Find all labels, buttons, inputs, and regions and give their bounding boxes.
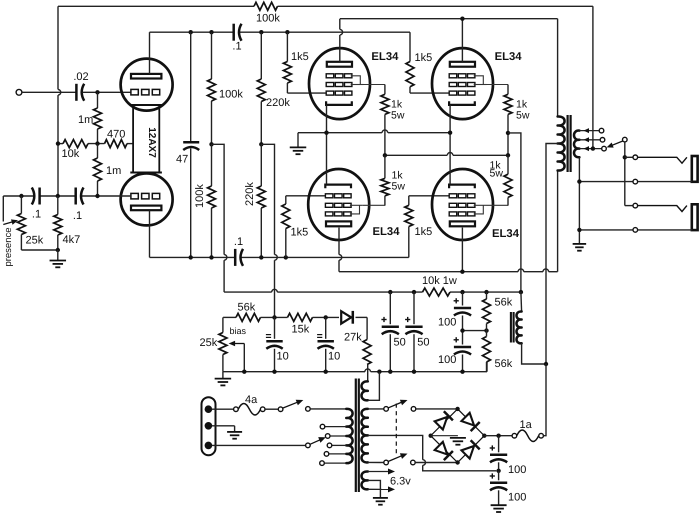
mains pin earth (205, 422, 213, 430)
node lower-right plate junction (460, 270, 464, 274)
wire left feedback drop (57, 6, 59, 89)
wire 6.3v tap lower (368, 488, 390, 490)
node screen rail right end (519, 290, 523, 294)
bias pot wiper (234, 343, 244, 345)
node 56k chain top (484, 290, 488, 294)
node bias winding return (377, 370, 381, 374)
capacitor 10uF bias b (325, 317, 327, 338)
node sleeve 1 (577, 179, 581, 183)
wire HT bottom tap (368, 461, 384, 463)
wire selector to jacks (624, 142, 626, 206)
choke core (510, 312, 512, 343)
node 1k5 top-left (285, 30, 289, 34)
wire ground rail (223, 371, 365, 373)
ground bridge centre (431, 435, 458, 437)
node 50uF b top (412, 290, 416, 294)
capacitor .1 presence left (38, 188, 41, 205)
node 100k top (209, 30, 213, 34)
svg-text:220k: 220k (244, 182, 256, 206)
svg-text:5w: 5w (391, 110, 405, 122)
tube EL34 lower-right (432, 169, 493, 240)
node choke B+ junction (544, 362, 548, 366)
transformer PT 6.3v winding (362, 471, 368, 489)
svg-text:.02: .02 (73, 71, 88, 83)
svg-text:4k7: 4k7 (63, 234, 81, 246)
svg-text:1k5: 1k5 (291, 51, 309, 63)
hop plate bus over screen supply (518, 269, 524, 272)
capacitor .02 input coupling (75, 84, 78, 101)
wire PT tap 220 (332, 444, 347, 446)
node 50b ground (412, 370, 416, 374)
wire EL34 upper-right plate (461, 19, 463, 62)
node 220k top (259, 30, 263, 34)
hop screen rail over bias feed (272, 289, 278, 292)
wire upper plate row (150, 31, 234, 33)
terminal jack1 tip (633, 155, 638, 160)
svg-text:1a: 1a (520, 419, 533, 431)
svg-text:6.3v: 6.3v (390, 476, 411, 488)
svg-text:50: 50 (417, 337, 429, 349)
wire PT tap 110 (324, 462, 346, 464)
node bridge top (455, 407, 459, 411)
node bias cap a ground (272, 370, 276, 374)
node bias feed junction (272, 315, 276, 319)
wire earth pin (212, 425, 235, 427)
node 50a ground (388, 370, 392, 374)
terminal jack1 sleeve (633, 179, 638, 184)
node reservoir branch (496, 434, 500, 438)
resistor 1k 5w screen upper-left (384, 85, 386, 95)
diode bias rectifier (341, 311, 351, 323)
wire input to coupling cap (22, 91, 77, 93)
transformer PT primary winding (346, 409, 352, 463)
node input grid junction (95, 90, 99, 94)
diode bridge left-bottom (435, 442, 448, 455)
jack 2 tip spring (638, 206, 687, 212)
svg-text:100k: 100k (219, 89, 243, 101)
svg-text:27k: 27k (344, 332, 362, 344)
node 4k7 top (56, 194, 60, 198)
svg-text:100k: 100k (194, 184, 206, 208)
node cathode right (448, 131, 452, 135)
svg-text:56k: 56k (495, 358, 513, 370)
wire PT tap 240 (325, 426, 347, 428)
svg-text:100: 100 (438, 317, 456, 329)
node screen bus left (383, 153, 387, 157)
fuse 1a (512, 433, 517, 438)
node grid side (95, 194, 99, 198)
node feedback tap (591, 146, 595, 150)
wire jack2 sleeve line (582, 229, 633, 231)
svg-text:presence: presence (3, 227, 14, 266)
tube 12AX7 lower plate (131, 206, 161, 211)
resistor 1k5 grid EL34 upper-left (286, 32, 288, 61)
wire psu mid link (463, 330, 487, 332)
capacitor 100uF psu upper (462, 292, 464, 305)
bridge frame (431, 409, 485, 463)
wire PT tap 120 (329, 453, 347, 455)
resistor 1k 5w screen upper-right (507, 85, 509, 95)
resistor 1m lower grid leak (97, 144, 99, 158)
capacitor 100uF reservoir lower (498, 471, 500, 481)
svg-text:100: 100 (508, 464, 526, 476)
wire EL34 lower-right plate drop (461, 228, 463, 272)
node 1k5 bottom-left (284, 255, 288, 259)
mains pin live (205, 405, 213, 413)
resistor 56k bias (236, 313, 260, 321)
wire lower plate row (150, 256, 236, 258)
wire OT primary top lead (557, 19, 559, 117)
svg-text:EL34: EL34 (495, 51, 523, 63)
node 47pF top (189, 30, 193, 34)
node sleeve 2 (577, 228, 581, 232)
ground presence network (57, 250, 59, 260)
wire screen stub upper-left (364, 84, 385, 86)
ground OT secondary (573, 243, 587, 245)
hop screen bus over cathode wire (447, 153, 453, 156)
resistor 27k bias (366, 317, 368, 339)
svg-text:4a: 4a (245, 394, 258, 406)
wire bias winding return (368, 372, 380, 401)
resistor 1k5 grid EL34 upper-right (409, 32, 411, 61)
node 47pF bottom (189, 255, 193, 259)
wire 6.3v centre tap (368, 480, 381, 497)
resistor 470 cathode (105, 140, 128, 148)
jog CT over switch wire (423, 460, 426, 466)
fuse 4a (234, 407, 239, 412)
hop ground rail over bias winding lead (365, 369, 371, 372)
hop feedback line over grid wire (58, 90, 61, 96)
mains switch (278, 407, 283, 412)
resistor 1m upper grid leak (97, 92, 99, 108)
wire screen stub lower-left (363, 204, 385, 206)
wire switch to primary (310, 408, 346, 410)
svg-text:5w: 5w (516, 110, 530, 122)
transformer OT secondary winding (574, 131, 579, 158)
wire cathode bus (298, 132, 382, 134)
wire OT secondary tap 2 (579, 139, 600, 141)
tube EL34 upper-right (432, 48, 493, 119)
svg-text:.1: .1 (32, 209, 41, 221)
terminal tap 110 (320, 461, 325, 466)
resistor 100k feedback (254, 2, 277, 10)
capacitor 100uF reservoir upper (498, 436, 500, 453)
resistor 100k lower plate load (208, 186, 216, 208)
svg-text:56k: 56k (495, 297, 513, 309)
node 100k bottom (209, 255, 213, 259)
svg-text:1m: 1m (78, 114, 93, 126)
svg-text:EL34: EL34 (371, 51, 399, 63)
wire pot bottom (21, 249, 57, 251)
hop bias branch over lower row (275, 255, 278, 261)
ground reservoir (491, 504, 507, 506)
node bias cap b ground (324, 370, 328, 374)
node psu caps ground (460, 370, 464, 374)
svg-text:.1: .1 (234, 236, 243, 248)
node plate load mid (209, 142, 213, 146)
wire screen bus (385, 154, 447, 156)
hop plate wire over EL34 plate drop (340, 29, 343, 35)
terminal tap 240 (320, 424, 325, 429)
svg-text:470: 470 (107, 129, 125, 141)
potentiometer 25k bias (222, 317, 224, 332)
node grid-leak mid junction (95, 141, 99, 145)
wire HT to bridge top (416, 408, 458, 410)
node 100uF pair top (460, 290, 464, 294)
tube 12AX7 cathode box (130, 104, 162, 106)
ground main rail (222, 372, 224, 378)
mains pin neutral (205, 442, 213, 450)
wire ground rail to 56k (486, 362, 488, 372)
diode bridge bottom-right (461, 446, 474, 459)
svg-text:1m: 1m (106, 165, 121, 177)
switch gang link (395, 404, 397, 457)
node jack1 tip branch (623, 155, 627, 159)
wire lower grid line (3, 195, 34, 197)
capacitor .1 lower coupling (234, 249, 237, 266)
terminal tap 230 (325, 434, 330, 439)
capacitor .1 presence right (74, 188, 77, 205)
tube 12AX7 upper plate (131, 74, 161, 79)
diode bridge left-top (435, 417, 448, 430)
wire HT centre tap (368, 435, 423, 459)
wire choke to B+ (522, 343, 546, 364)
terminal jack2 tip (633, 203, 638, 208)
resistor 220k upper grid (260, 32, 262, 79)
resistor 56k psu upper (486, 292, 488, 299)
resistor 1k 5w screen lower-right (504, 174, 512, 197)
svg-text:5w: 5w (392, 181, 406, 193)
wire OT primary centre tap (546, 144, 558, 365)
svg-text:1k5: 1k5 (415, 52, 433, 64)
wire cathodes left pair (326, 105, 328, 184)
svg-text:100k: 100k (256, 13, 280, 25)
wire OT secondary ground lead (578, 157, 580, 243)
node 50uF a top (388, 290, 392, 294)
wire plate bus upper EL34s (340, 18, 558, 20)
wire feedback takeoff (592, 6, 594, 148)
potentiometer 25k presence (20, 196, 22, 214)
node feedback-tail junction (56, 141, 60, 145)
wire screen supply branch (508, 133, 521, 292)
node bias cap2 junction (324, 315, 328, 319)
tube 12AX7 upper triode envelope (121, 59, 173, 111)
wire HT top tap (368, 408, 384, 410)
wire cathodes right pair (449, 105, 451, 184)
wire neutral to selector (212, 444, 306, 446)
svg-text:5w: 5w (490, 168, 504, 180)
svg-text:25k: 25k (26, 235, 44, 247)
wire bias rail (223, 316, 236, 318)
wire plate load feed branch (212, 144, 225, 254)
wire bridge to fuse (484, 435, 512, 437)
wire cap to 12AX7 grid (83, 91, 132, 93)
transformer PT HT winding (362, 409, 368, 463)
resistor 10k tail (63, 140, 88, 148)
node reservoir mid (496, 469, 500, 473)
terminal jack2 sleeve (633, 228, 638, 233)
svg-text:47: 47 (176, 154, 188, 166)
transformer PT core (355, 379, 357, 493)
jack 1 tip spring (638, 157, 687, 163)
terminal tap 120 (324, 452, 329, 457)
capacitor 100uF psu lower (454, 346, 471, 349)
node bridge bottom (455, 460, 459, 464)
resistor 15k bias (288, 313, 313, 321)
terminal tap 220 (327, 443, 332, 448)
hop plate bus over B+ line (543, 269, 549, 272)
svg-text:bias: bias (230, 326, 247, 336)
svg-text:10k: 10k (62, 148, 80, 160)
resistor 56k psu lower (483, 337, 491, 363)
node cathode left (324, 131, 328, 135)
terminal tap 2 (600, 138, 605, 143)
wire screen stub lower-right (487, 204, 509, 206)
wire lower plate bus (339, 271, 518, 273)
svg-text:1k5: 1k5 (291, 227, 309, 239)
svg-text:EL34: EL34 (492, 228, 520, 240)
svg-text:220k: 220k (266, 97, 290, 109)
wire fuse to switch (265, 408, 278, 410)
mains connector body (202, 397, 216, 455)
resistor 4k7 (57, 196, 59, 215)
svg-text:15k: 15k (292, 324, 310, 336)
choke screen supply (520, 292, 523, 311)
wire PT tap 230 (330, 435, 346, 437)
resistor 1k 5w screen lower-left (381, 178, 389, 195)
svg-text:56k: 56k (238, 302, 256, 314)
svg-text:10: 10 (328, 351, 340, 363)
hop cathode bus over screen chain (382, 130, 388, 133)
wire HT to bridge bottom (415, 462, 457, 464)
node screen bus right (506, 153, 510, 157)
node plate bus junction (460, 17, 464, 21)
wire 6.3v tap upper (368, 471, 390, 473)
jack 2 sleeve body (692, 204, 698, 230)
presence pot wiper arrow (2, 196, 4, 222)
svg-text:10: 10 (277, 351, 289, 363)
svg-text:100: 100 (438, 354, 456, 366)
svg-text:100: 100 (508, 492, 526, 504)
transformer OT primary winding (558, 116, 565, 170)
wire 27k to bias winding (366, 365, 369, 382)
terminal tap 1 (599, 128, 604, 133)
resistor 100k upper plate load (211, 32, 213, 79)
svg-text:.1: .1 (73, 210, 82, 222)
impedance selector arm (623, 137, 628, 142)
diode bridge top-right (461, 413, 474, 426)
resistor 1k5 grid EL34 lower-right (408, 227, 410, 258)
terminal tap 3 (602, 146, 607, 151)
wire live to fuse (212, 408, 234, 410)
node grid bias mid (259, 142, 263, 146)
ground cathode bus (297, 133, 299, 147)
svg-text:50: 50 (394, 337, 406, 349)
capacitor .1 upper coupling (232, 24, 235, 41)
tube 12AX7 lower grid (131, 193, 138, 199)
tube 12AX7 lower triode envelope (121, 173, 173, 225)
capacitor 10uF bias a (274, 317, 276, 338)
wire screen stub upper-right (487, 84, 509, 86)
node wiper ground (242, 370, 246, 374)
svg-text:1k5: 1k5 (415, 226, 433, 238)
hop B+ branch over lower row (224, 255, 227, 261)
node ground junction lower-left (56, 248, 60, 252)
capacitor 47 compensation (190, 32, 192, 141)
ground earth pin (227, 431, 242, 433)
capacitor 50uF a (389, 292, 391, 324)
wire OT secondary tap 3 (579, 148, 601, 150)
svg-text:.1: .1 (232, 41, 241, 53)
ground 6.3v centre tap (373, 497, 388, 499)
capacitor 50uF b (413, 292, 415, 324)
input terminal (16, 89, 22, 95)
tube 12AX7 upper grid (131, 89, 138, 95)
wire bias feed branch (261, 144, 274, 254)
resistor 1k5 grid EL34 lower-left (285, 229, 287, 258)
HT switch upper (384, 407, 389, 412)
wire jack1 sleeve line (582, 181, 633, 183)
wire feedback top rail (58, 5, 254, 7)
node bridge left (429, 434, 433, 438)
tube EL34 lower-left (308, 169, 369, 240)
node 220k bottom (259, 255, 263, 259)
tube EL34 upper-left (309, 48, 370, 119)
svg-text:25k: 25k (200, 337, 218, 349)
wire screen rail (223, 260, 225, 292)
transformer PT bias winding (362, 381, 368, 400)
svg-text:EL34: EL34 (373, 226, 401, 238)
transformer OT core (566, 115, 568, 172)
node screen supply tap (506, 131, 510, 135)
wire fuse to B+ riser (543, 364, 546, 436)
svg-text:10k 1w: 10k 1w (422, 275, 457, 287)
svg-text:12AX7: 12AX7 (146, 127, 157, 158)
node presence top (19, 194, 23, 198)
jack 1 sleeve body (692, 156, 698, 182)
node bridge right (482, 434, 486, 438)
resistor 220k lower grid (257, 186, 265, 208)
wire EL34 lower-left plate drop (338, 228, 340, 255)
wire tail junction row (58, 143, 63, 145)
wire OT secondary tap 1 (579, 130, 599, 132)
voltage selector arm (306, 443, 311, 448)
wire bias feed drop (274, 260, 276, 317)
HT switch lower (384, 460, 389, 465)
resistor 10k 1w dropper (423, 288, 451, 296)
